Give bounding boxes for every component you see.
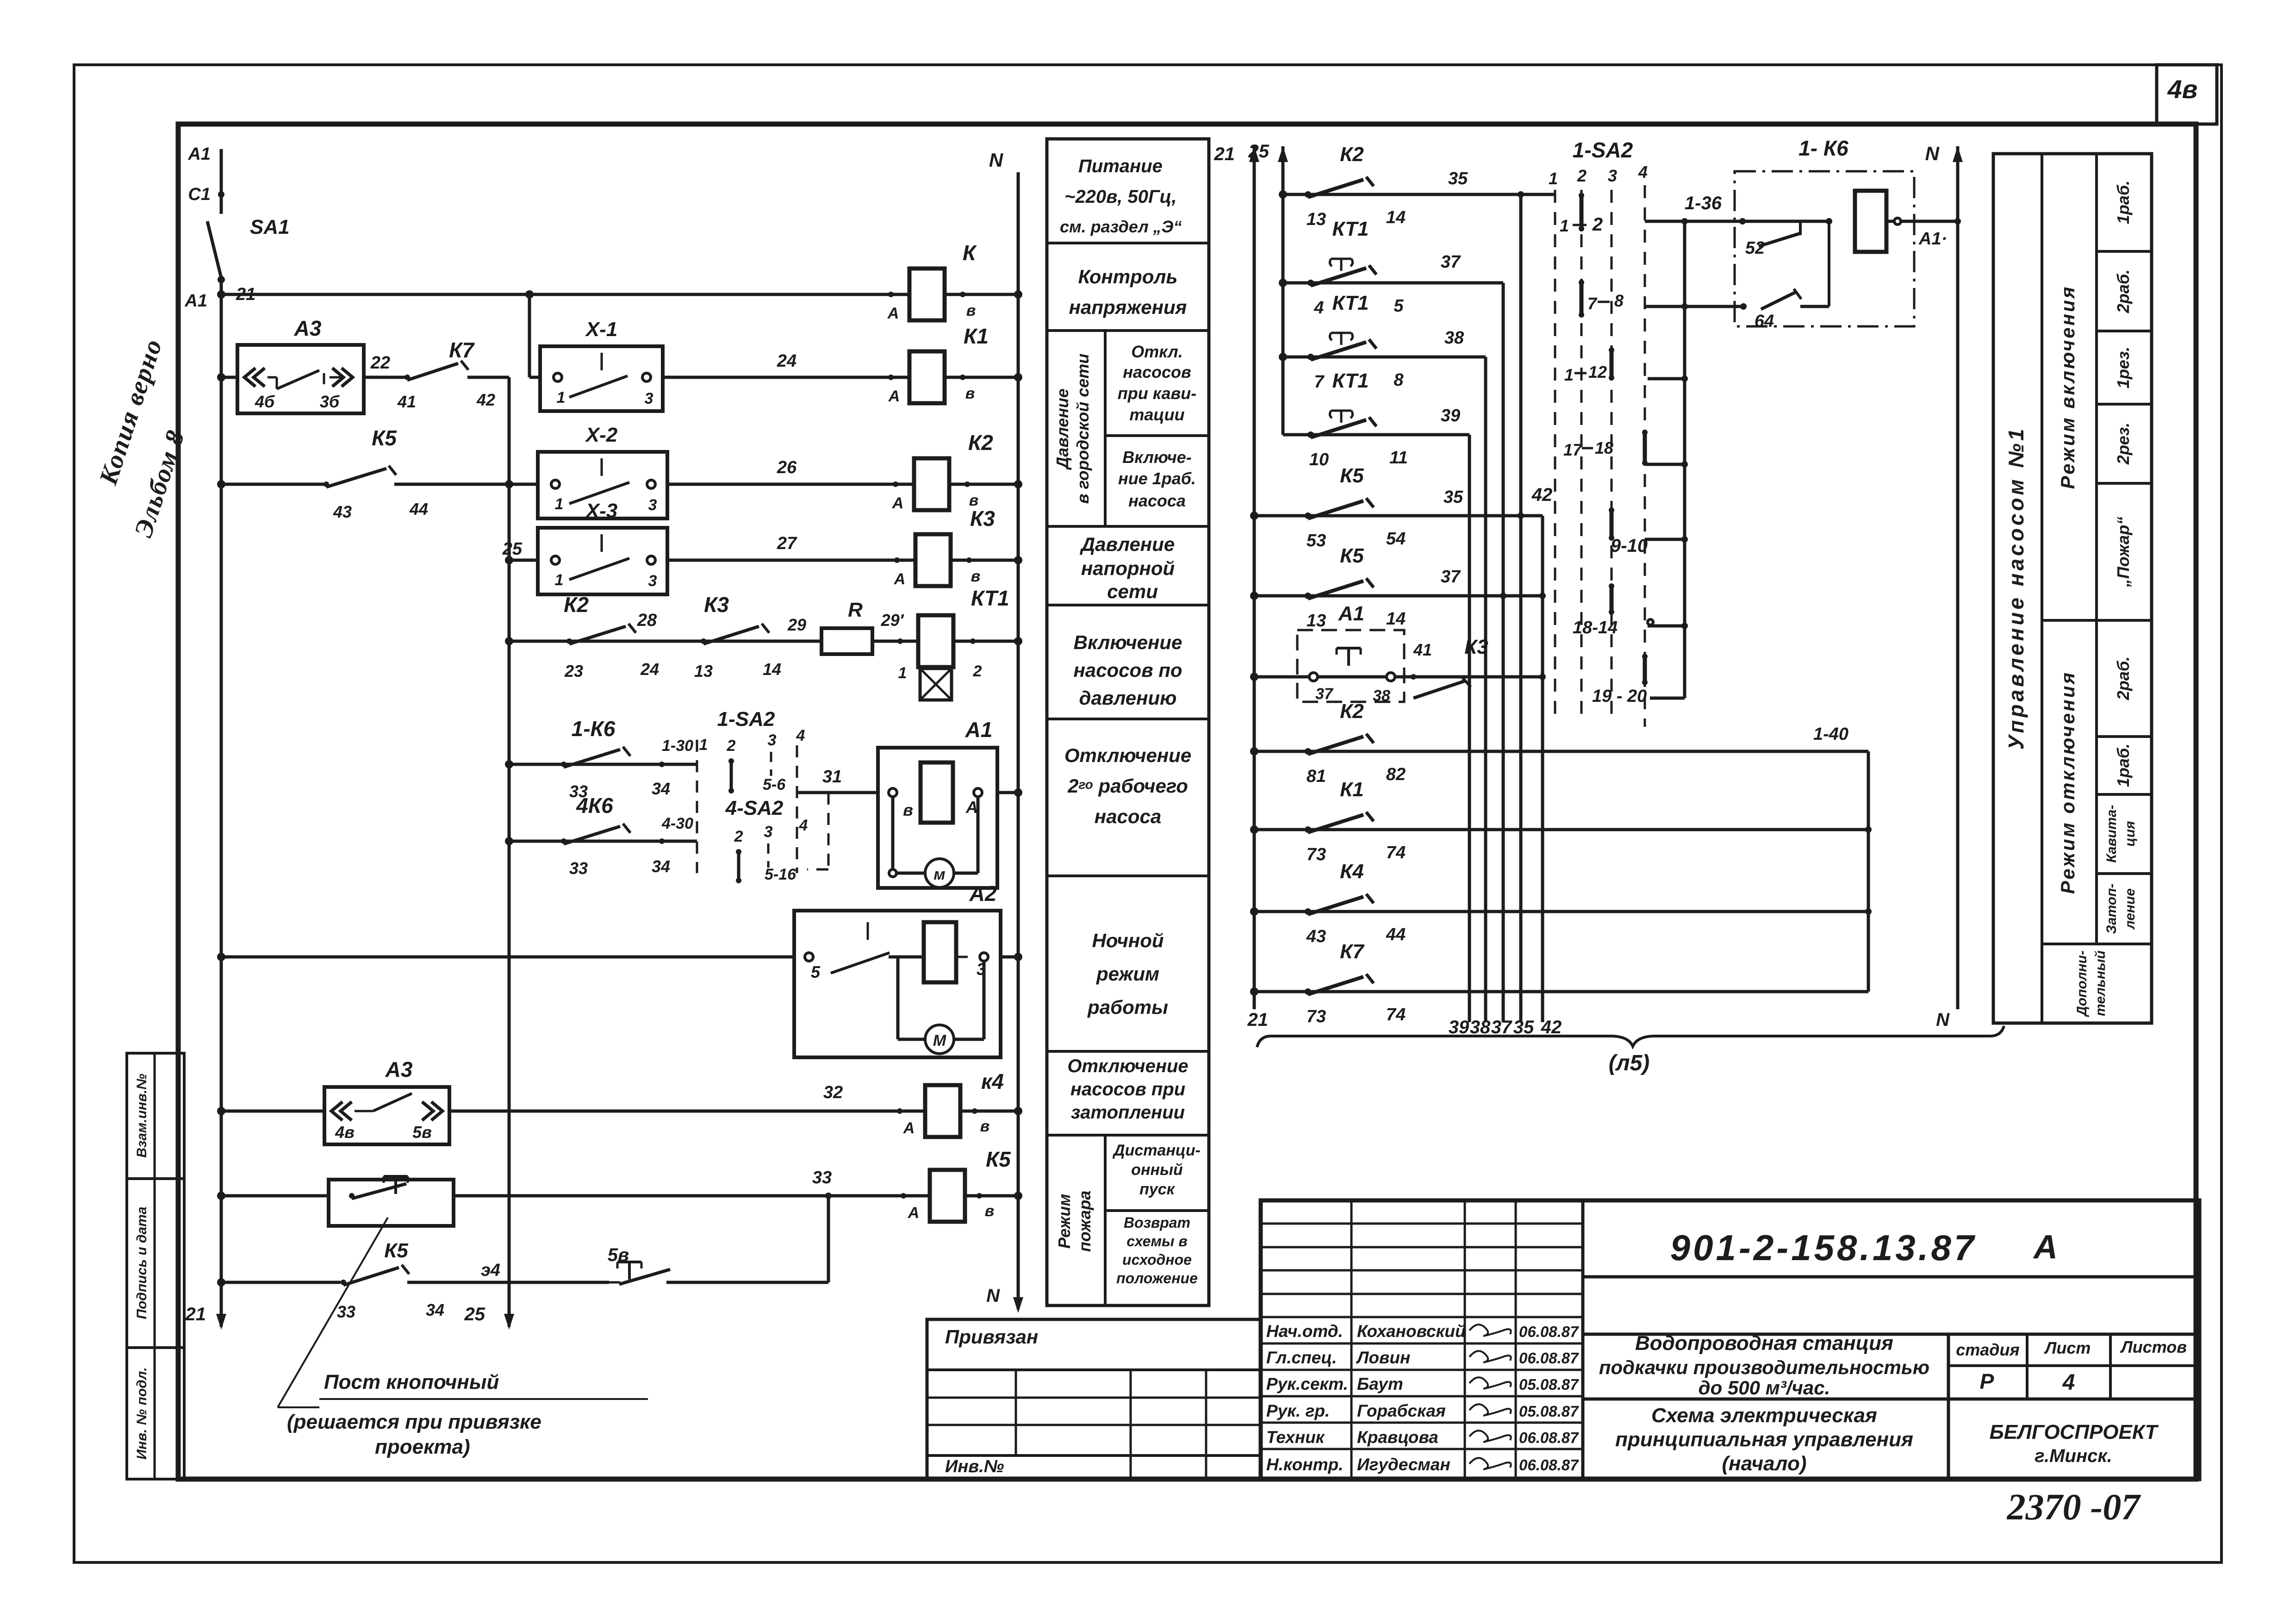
rung 35b: contact K5 (53-54) [1250, 464, 1552, 550]
project name cell [1599, 1332, 1929, 1399]
bus N right ladder [1925, 143, 1963, 1030]
note: Пост кнопочный (решается при привязке проекта) [287, 1371, 648, 1458]
svg-text:42: 42 [476, 390, 495, 409]
svg-text:исходное: исходное [1122, 1251, 1192, 1268]
svg-text:сети: сети [1107, 581, 1158, 602]
svg-text:Затоп-: Затоп- [2104, 884, 2119, 934]
svg-text:43: 43 [1306, 927, 1326, 946]
svg-text:э4: э4 [481, 1261, 500, 1280]
bus N left ladder [986, 149, 1023, 1313]
svg-text:4-SA2: 4-SA2 [725, 797, 784, 819]
relay coil K1 [888, 324, 989, 405]
svg-text:работы: работы [1087, 996, 1168, 1018]
svg-text:в: в [965, 385, 975, 402]
svg-text:Лист: Лист [2044, 1338, 2091, 1357]
svg-text:7: 7 [1314, 372, 1325, 392]
bus A1 (line 21) left vertical [185, 280, 227, 1330]
cell: Дистанционный пуск [1112, 1142, 1201, 1198]
wire drop to X-1 [528, 294, 531, 377]
svg-text:к4: к4 [981, 1069, 1004, 1093]
svg-text:Отключение: Отключение [1064, 744, 1191, 766]
svg-text:18: 18 [1595, 438, 1613, 457]
svg-text:SA1: SA1 [250, 216, 290, 238]
svg-text:Рук. гр.: Рук. гр. [1266, 1401, 1330, 1420]
svg-text:Режим отключения: Режим отключения [2057, 671, 2078, 894]
svg-text:3: 3 [645, 390, 653, 407]
relay coil A1 (1-K6) [1855, 191, 1961, 252]
svg-text:34: 34 [652, 779, 670, 798]
svg-text:положение: положение [1116, 1270, 1198, 1287]
svg-text:13: 13 [1307, 611, 1326, 631]
svg-text:1-К6: 1-К6 [572, 717, 616, 741]
sheet title cell [1615, 1404, 1913, 1475]
svg-text:Пост кнопочный: Пост кнопочный [324, 1371, 499, 1393]
svg-text:4: 4 [796, 727, 805, 744]
cell: Питание 220В 50Гц [1060, 156, 1182, 236]
svg-text:Контроль: Контроль [1078, 266, 1178, 287]
svg-text:3: 3 [768, 731, 777, 749]
svg-text:в городской сети: в городской сети [1073, 354, 1092, 504]
svg-text:КТ1: КТ1 [1332, 369, 1369, 392]
svg-text:1: 1 [898, 664, 907, 682]
svg-text:А1·: А1· [1918, 229, 1947, 249]
svg-text:34: 34 [426, 1300, 444, 1319]
rung 38: time contact KT1 (7-8) [1279, 292, 1486, 392]
svg-text:1рез.: 1рез. [2114, 347, 2133, 388]
svg-text:1: 1 [1560, 216, 1569, 235]
svg-text:К7: К7 [449, 338, 475, 362]
wire node 22 [364, 353, 410, 380]
svg-text:Техник: Техник [1266, 1428, 1325, 1447]
svg-text:28: 28 [637, 611, 657, 630]
rung: button A1 (37-38) and contact K3 (41) [1250, 602, 1546, 705]
relay coil K3 [894, 506, 996, 588]
svg-text:А3: А3 [385, 1057, 413, 1081]
svg-text:82: 82 [1386, 765, 1406, 784]
svg-text:10: 10 [1309, 450, 1329, 469]
leader line to note [278, 1218, 388, 1407]
svg-text:пуск: пуск [1139, 1181, 1176, 1198]
svg-text:Ловин: Ловин [1356, 1348, 1410, 1367]
switch contact 17-18 [1563, 430, 1648, 466]
drawing inner frame [178, 124, 2196, 1479]
svg-text:К1: К1 [1340, 778, 1364, 801]
wire 31 to starter A1 [797, 767, 878, 793]
handwritten note: Эльбом 8 [129, 426, 190, 541]
svg-text:БЕЛГОСПРОЕКТ: БЕЛГОСПРОЕКТ [1990, 1421, 2159, 1443]
svg-text:принципиальная управления: принципиальная управления [1615, 1428, 1913, 1451]
page number box 4B [2157, 65, 2217, 124]
svg-text:42: 42 [1531, 485, 1553, 505]
svg-text:21: 21 [185, 1304, 206, 1324]
svg-text:4: 4 [799, 817, 808, 834]
svg-text:Давление: Давление [1080, 533, 1175, 555]
svg-text:06.08.87: 06.08.87 [1519, 1456, 1579, 1474]
svg-text:Кавита-: Кавита- [2104, 805, 2119, 863]
svg-text:1-40: 1-40 [1813, 725, 1848, 744]
relay coil K2 [892, 431, 994, 512]
svg-text:8: 8 [1394, 370, 1404, 390]
svg-text:Горабская: Горабская [1357, 1401, 1446, 1420]
svg-text:4: 4 [1638, 162, 1648, 181]
bus 25 right ladder [1248, 141, 1288, 435]
svg-text:К2: К2 [968, 431, 993, 455]
function table frame [1047, 139, 1209, 1305]
svg-text:4К6: 4К6 [576, 793, 613, 818]
svg-text:73: 73 [1307, 845, 1326, 864]
svg-text:2: 2 [1592, 214, 1603, 235]
svg-text:52: 52 [1745, 238, 1765, 258]
night mode rung to starter A2 [217, 953, 809, 961]
svg-text:насосов при: насосов при [1070, 1079, 1185, 1099]
svg-text:32: 32 [823, 1083, 843, 1102]
svg-text:23: 23 [564, 662, 583, 681]
svg-text:1: 1 [1564, 365, 1574, 384]
svg-text:Дистанци-: Дистанци- [1112, 1142, 1201, 1159]
cell: Режим отключения (rotated) [2057, 671, 2078, 894]
svg-text:1-36: 1-36 [1685, 193, 1722, 213]
svg-text:Инв.№: Инв.№ [945, 1457, 1004, 1476]
svg-text:К5: К5 [1340, 544, 1364, 567]
svg-text:А: А [903, 1119, 915, 1137]
cable brace (l5) [1257, 1026, 2004, 1075]
svg-text:К5: К5 [372, 426, 397, 450]
switch contact 19-20 [1592, 654, 1648, 706]
svg-text:Включение: Включение [1074, 631, 1182, 653]
svg-text:насосов: насосов [1123, 362, 1191, 381]
svg-text:Кохановский: Кохановский [1357, 1322, 1466, 1341]
junction box X-1 (break contact 1-3) [529, 318, 663, 411]
cell: Отключение насосов при затоплении [1067, 1056, 1188, 1123]
svg-text:74: 74 [1386, 843, 1406, 862]
svg-text:N: N [989, 149, 1004, 171]
svg-text:затоплении: затоплении [1071, 1102, 1185, 1123]
svg-text:2рез.: 2рез. [2114, 423, 2133, 465]
starter box A2 with pushbutton, coil and motor lamp [794, 881, 1022, 1057]
svg-text:13: 13 [1307, 210, 1326, 229]
cell: Возврат схемы в исходное положение [1116, 1214, 1198, 1287]
svg-text:А: А [2033, 1229, 2058, 1266]
rung 37: time contact KT1 (4-5) [1279, 218, 1503, 318]
rung with K2, K3 contacts and resistor R to KT1 [505, 593, 821, 681]
svg-text:25: 25 [502, 539, 523, 559]
svg-text:R: R [848, 599, 863, 621]
svg-text:34: 34 [652, 857, 670, 876]
rung: contact K1 (73-74) [1250, 778, 1872, 864]
stage/sheet header [1956, 1337, 2187, 1395]
svg-text:37: 37 [1441, 252, 1461, 272]
svg-text:КТ1: КТ1 [1332, 292, 1369, 314]
svg-text:К5: К5 [384, 1239, 408, 1262]
svg-text:К1: К1 [964, 324, 989, 348]
cell: Включение насосов по давлению [1073, 631, 1182, 709]
relay coil K5 [908, 1147, 1012, 1222]
svg-text:тельный: тельный [2093, 950, 2108, 1016]
svg-text:КТ1: КТ1 [1332, 218, 1369, 240]
svg-text:А: А [887, 305, 899, 322]
svg-text:37: 37 [1441, 567, 1461, 587]
contact K5 (43-44) [217, 426, 538, 521]
contact 1-K6 (33-34) [505, 717, 697, 801]
svg-text:8: 8 [1614, 291, 1624, 310]
svg-text:3: 3 [648, 496, 657, 514]
svg-text:21: 21 [1214, 144, 1235, 164]
time relay coil KT1 [898, 586, 1009, 700]
staff rows [1266, 1322, 1579, 1474]
svg-text:А: А [892, 494, 904, 512]
svg-text:Рук.сект.: Рук.сект. [1266, 1374, 1348, 1393]
svg-text:ние 1раб.: ние 1раб. [1118, 469, 1196, 488]
svg-text:А1: А1 [1338, 602, 1364, 625]
svg-text:Гл.спец.: Гл.спец. [1266, 1348, 1337, 1367]
document number 901-2-158.13.87 A [1670, 1227, 2058, 1268]
handwritten note: Копия верно [94, 335, 168, 488]
svg-text:35: 35 [1448, 169, 1468, 188]
pushbutton 5B [609, 1262, 828, 1284]
cell: Ночной режим работы [1087, 930, 1168, 1018]
svg-text:26: 26 [777, 458, 797, 477]
svg-text:А: А [894, 570, 906, 588]
svg-text:7: 7 [1587, 294, 1598, 313]
rung 39: time contact KT1 (10-11) [1283, 369, 1469, 469]
svg-text:Откл.: Откл. [1131, 342, 1183, 361]
svg-text:К3: К3 [970, 506, 995, 531]
svg-text:42: 42 [1541, 1017, 1562, 1037]
rung: contact K4 (43-44) [1250, 860, 1872, 946]
svg-text:2раб.: 2раб. [2114, 656, 2133, 700]
svg-text:(начало): (начало) [1722, 1452, 1806, 1475]
rung 35: contact K2 (13-14) [1279, 143, 1555, 229]
pressure sensor box A3 (flood) rung 32 to K4 [217, 1057, 1022, 1144]
right collector vertical 1-40 [1867, 751, 1870, 992]
svg-text:33: 33 [337, 1302, 355, 1321]
svg-text:Подпись и дата: Подпись и дата [134, 1206, 149, 1319]
svg-text:КТ1: КТ1 [971, 586, 1009, 610]
cell: Давление напорной сети [1080, 533, 1175, 602]
svg-text:3: 3 [1608, 166, 1617, 185]
switch output stubs and collector [1645, 221, 1688, 698]
svg-text:35: 35 [1444, 487, 1463, 507]
svg-text:Схема электрическая: Схема электрическая [1651, 1404, 1877, 1427]
collector verticals 39 38 37 35 42 [1449, 194, 1562, 1037]
svg-text:~220в, 50Гц,: ~220в, 50Гц, [1064, 187, 1176, 207]
svg-text:44: 44 [409, 500, 428, 518]
svg-text:2370 -07: 2370 -07 [2007, 1487, 2141, 1528]
contact 4K6 (33-34) [505, 793, 697, 878]
cell: Включение 1 раб. насоса [1118, 448, 1196, 510]
svg-text:Х-1: Х-1 [585, 318, 617, 341]
bus 21 right ladder [1214, 144, 1269, 1030]
svg-text:А: А [965, 798, 978, 817]
svg-text:39: 39 [1449, 1017, 1469, 1037]
svg-text:Включе-: Включе- [1122, 448, 1191, 467]
svg-text:81: 81 [1307, 767, 1326, 786]
svg-text:38: 38 [1444, 328, 1464, 348]
node A1 supply stub with C1 tap [187, 144, 224, 214]
svg-text:Привязан: Привязан [945, 1326, 1038, 1348]
junction box X-3 (break contact 1-3) [502, 500, 667, 594]
svg-text:73: 73 [1307, 1007, 1326, 1026]
svg-text:напорной: напорной [1081, 557, 1175, 579]
svg-text:43: 43 [333, 502, 352, 521]
handwritten archive number 2370-07 [2007, 1487, 2141, 1528]
junction box X-2 (break contact 1-3) [538, 424, 667, 518]
svg-text:Режим: Режим [1055, 1194, 1074, 1249]
switch contact 7-8 [1579, 280, 1624, 318]
svg-text:21: 21 [1247, 1010, 1269, 1030]
starter box A1 with coil and motor lamp [878, 718, 1022, 888]
svg-text:Игудесман: Игудесман [1357, 1455, 1450, 1474]
svg-text:2: 2 [727, 737, 736, 755]
svg-text:2раб.: 2раб. [2114, 269, 2133, 313]
svg-text:К5: К5 [986, 1147, 1011, 1171]
switch contact 1-2 [1560, 193, 1603, 235]
svg-text:подкачки производительностью: подкачки производительностью [1599, 1356, 1929, 1378]
table title: Управление насосом N1 (rotated) [2004, 426, 2028, 750]
svg-text:К2: К2 [564, 593, 589, 617]
svg-text:Инв. № подл.: Инв. № подл. [134, 1367, 149, 1459]
relay coil K4 [903, 1069, 1004, 1137]
wire 24 to relay K1 [663, 351, 1022, 381]
cell: Режим включения (rotated) [2057, 285, 2078, 489]
svg-text:1: 1 [555, 571, 564, 589]
svg-text:18-14: 18-14 [1573, 618, 1618, 637]
svg-text:онный: онный [1131, 1161, 1183, 1179]
svg-text:в: в [980, 1118, 990, 1135]
rung: voltage control relay K [217, 290, 1022, 299]
svg-text:2: 2 [734, 828, 743, 845]
svg-text:давлению: давлению [1079, 687, 1177, 709]
svg-text:N: N [986, 1286, 1000, 1306]
svg-text:К: К [963, 241, 977, 265]
pushbutton post box rung 33 to K5 [217, 1168, 1022, 1226]
svg-text:Ночной: Ночной [1092, 930, 1164, 951]
svg-text:Листов: Листов [2120, 1337, 2187, 1356]
svg-text:(решается при привязке: (решается при привязке [287, 1411, 541, 1433]
svg-text:1раб.: 1раб. [2114, 181, 2133, 224]
svg-text:Кравцова: Кравцова [1357, 1428, 1438, 1447]
svg-text:в: в [903, 800, 913, 819]
svg-text:33: 33 [812, 1168, 832, 1187]
svg-text:г.Минск.: г.Минск. [2035, 1446, 2112, 1466]
svg-text:22: 22 [370, 353, 390, 373]
cell: Контроль напряжения [1069, 266, 1187, 318]
svg-text:1-30: 1-30 [662, 737, 693, 755]
svg-text:ление: ление [2122, 888, 2138, 930]
svg-text:19 - 20: 19 - 20 [1592, 687, 1647, 706]
svg-text:37: 37 [1491, 1017, 1512, 1037]
svg-text:1раб.: 1раб. [2114, 743, 2133, 787]
svg-text:Питание: Питание [1078, 156, 1163, 176]
svg-text:35: 35 [1513, 1017, 1534, 1037]
svg-text:тации: тации [1129, 405, 1184, 424]
svg-text:24: 24 [777, 351, 796, 371]
svg-text:см. раздел „Э“: см. раздел „Э“ [1060, 217, 1182, 236]
svg-text:Возврат: Возврат [1124, 1214, 1190, 1231]
title block frame [1261, 1200, 2199, 1479]
svg-text:33: 33 [569, 859, 588, 878]
svg-text:05.08.87: 05.08.87 [1519, 1376, 1579, 1393]
relay coil K [887, 241, 977, 322]
wire 1-36 from switch to 1-K6 block [1645, 193, 1742, 225]
svg-text:1-SA2: 1-SA2 [717, 708, 775, 731]
svg-text:А1: А1 [965, 718, 993, 742]
svg-text:насоса: насоса [1095, 806, 1161, 827]
wire from 5B path up to node 33 [827, 1196, 830, 1282]
svg-text:К5: К5 [1340, 464, 1364, 487]
svg-text:53: 53 [1307, 531, 1326, 550]
svg-text:901-2-158.13.87: 901-2-158.13.87 [1670, 1227, 1977, 1268]
svg-text:режим: режим [1096, 963, 1159, 985]
svg-text:29: 29 [787, 615, 806, 634]
svg-text:Отключение: Отключение [1067, 1056, 1188, 1076]
switch contact 1-12 [1564, 347, 1614, 384]
svg-text:проекта): проекта) [375, 1436, 470, 1458]
selector switch 1-SA2 / 4-SA2 position diagram [697, 708, 828, 883]
svg-text:1: 1 [1549, 169, 1558, 188]
svg-text:37: 37 [1315, 685, 1334, 703]
cell: Режим пожара (rotated) [1055, 1191, 1094, 1252]
svg-text:44: 44 [1386, 925, 1406, 944]
svg-text:5: 5 [811, 962, 821, 981]
svg-text:насоса: насоса [1128, 491, 1186, 510]
pressure sensor box A3 (city main) [217, 316, 364, 413]
svg-text:39: 39 [1441, 406, 1460, 425]
svg-text:Управление насосом №1: Управление насосом №1 [2004, 426, 2028, 750]
svg-text:Нач.отд.: Нач.отд. [1266, 1322, 1343, 1341]
svg-text:м: м [933, 866, 945, 883]
svg-text:05.08.87: 05.08.87 [1519, 1403, 1579, 1420]
svg-text:А: А [908, 1204, 920, 1222]
svg-text:3б: 3б [320, 392, 340, 411]
svg-text:31: 31 [822, 767, 842, 787]
svg-text:2: 2 [973, 662, 982, 680]
wire 26 to relay K2 [667, 458, 1022, 488]
svg-text:1: 1 [699, 736, 708, 754]
svg-text:27: 27 [777, 534, 797, 553]
svg-text:64: 64 [1755, 312, 1774, 331]
rung 37b: contact K5 (13-14) [1250, 544, 1546, 631]
svg-text:38: 38 [1470, 1017, 1491, 1037]
attachment table Привязан [927, 1319, 1261, 1479]
svg-text:1: 1 [555, 495, 564, 513]
svg-text:напряжения: напряжения [1069, 296, 1187, 318]
cell: Откл. насосов при кавитации [1118, 342, 1196, 424]
svg-text:41: 41 [1413, 640, 1432, 659]
svg-text:Х-3: Х-3 [585, 500, 617, 522]
contact K7 (41-42) [397, 338, 509, 411]
margin strip: Взам.инв.№ / Подпись и дата / Инв.№ подл. [127, 1053, 184, 1479]
svg-text:4в: 4в [2167, 75, 2198, 104]
svg-text:„Пожар“: „Пожар“ [2114, 517, 2133, 587]
svg-text:Н.контр.: Н.контр. [1266, 1455, 1343, 1474]
svg-text:Дополни-: Дополни- [2074, 950, 2090, 1018]
svg-text:(л5): (л5) [1609, 1051, 1650, 1075]
svg-text:5-6: 5-6 [763, 776, 786, 793]
svg-text:12: 12 [1588, 362, 1607, 381]
wire 27 to relay K3 [667, 534, 1022, 564]
svg-text:2: 2 [1577, 166, 1587, 185]
svg-text:3: 3 [648, 572, 657, 590]
svg-text:Водопроводная станция: Водопроводная станция [1635, 1332, 1893, 1355]
svg-text:Р: Р [1980, 1369, 1994, 1393]
svg-text:Давление: Давление [1053, 388, 1072, 470]
svg-text:1- К6: 1- К6 [1798, 136, 1848, 160]
svg-text:13: 13 [694, 662, 713, 681]
svg-text:при кави-: при кави- [1118, 384, 1196, 403]
svg-text:5-16: 5-16 [765, 866, 796, 883]
svg-text:Взам.инв.№: Взам.инв.№ [134, 1074, 149, 1157]
